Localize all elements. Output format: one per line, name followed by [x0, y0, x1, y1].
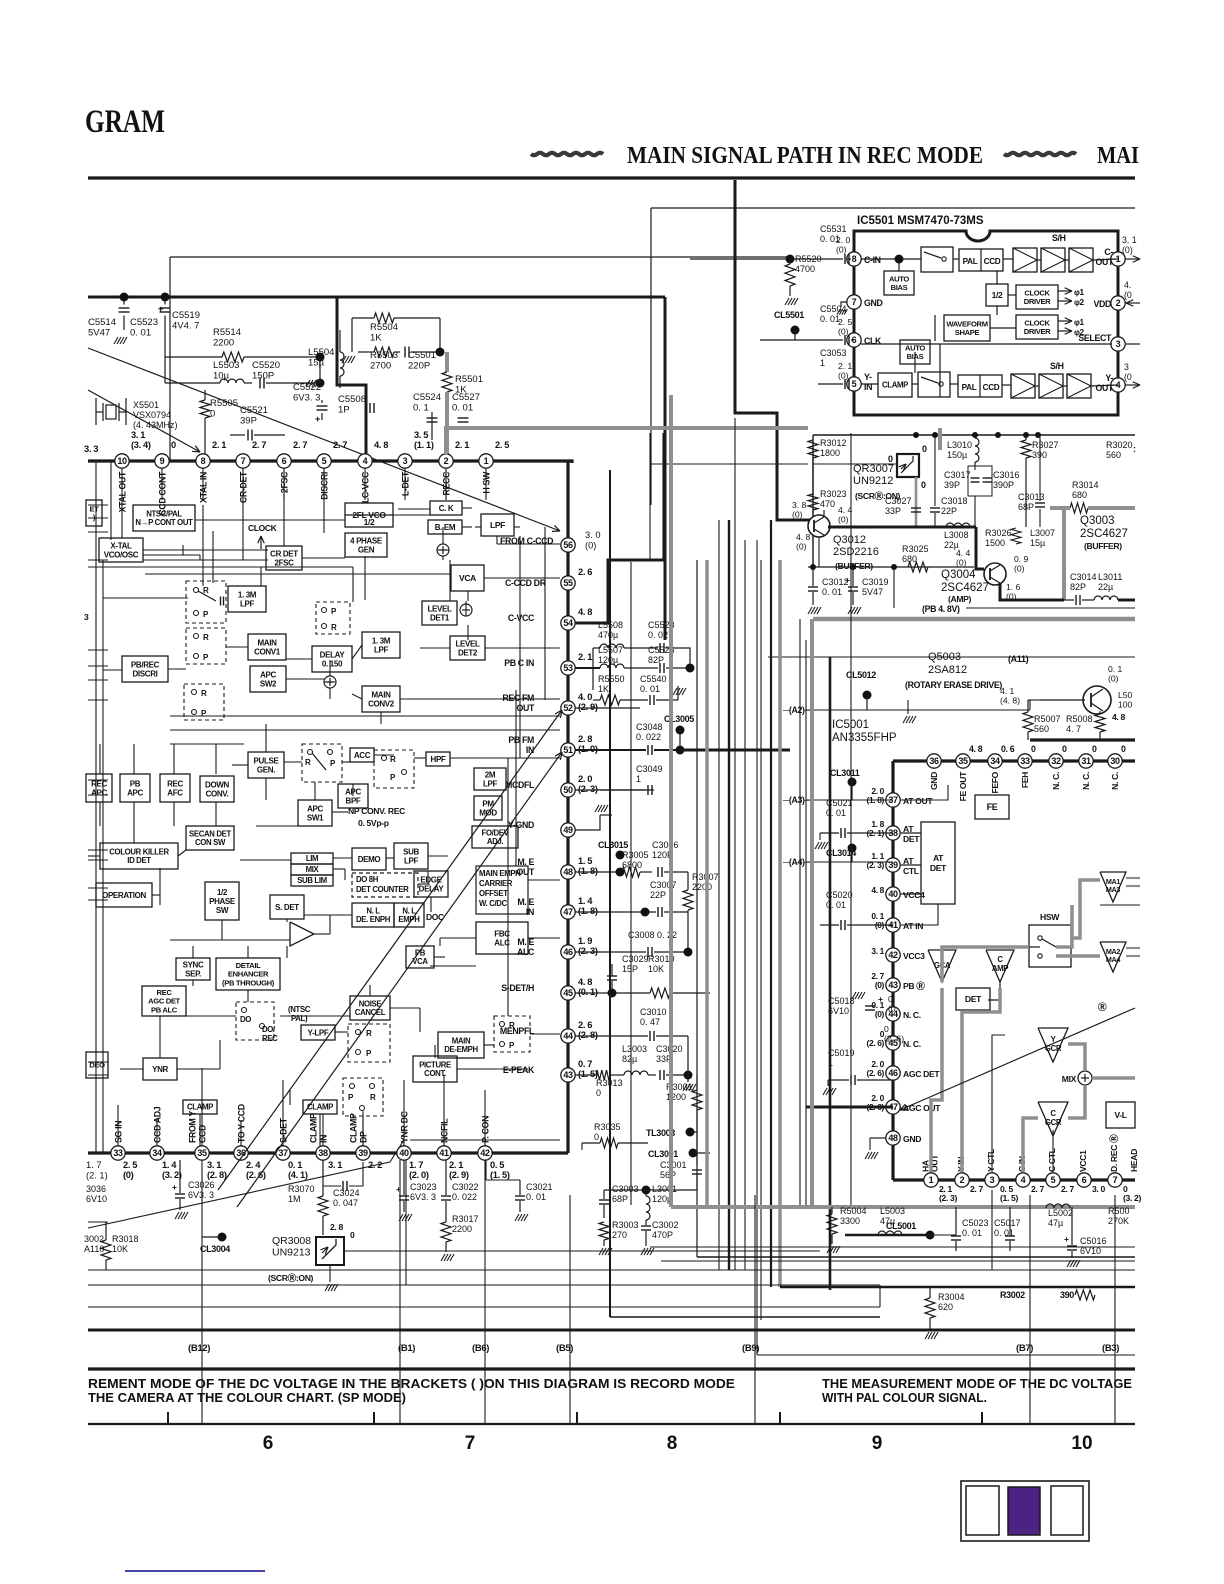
svg-text:C3022: C3022	[452, 1182, 479, 1192]
svg-text:ID DET: ID DET	[127, 856, 151, 865]
svg-text:OPERATION: OPERATION	[102, 891, 146, 900]
block 4 PHASE GEN	[345, 533, 387, 557]
junction CL3014	[848, 844, 857, 853]
svg-text:22µ: 22µ	[1098, 582, 1113, 592]
IC5001 pin 44 N. C.	[886, 1007, 900, 1021]
svg-text:(2. 9): (2. 9)	[578, 702, 598, 712]
svg-text:R3002: R3002	[1000, 1290, 1025, 1300]
IC5001 pin 31 N. C.	[1079, 754, 1093, 768]
svg-text:HEAD: HEAD	[1129, 1149, 1139, 1172]
svg-text:ACC: ACC	[354, 751, 371, 760]
switch dashed R/P c	[184, 684, 224, 720]
svg-text:GND: GND	[929, 772, 939, 790]
svg-text:5: 5	[322, 456, 327, 466]
IC5001 pin 42 VCC3	[886, 948, 900, 962]
svg-text:Q3012: Q3012	[833, 534, 866, 546]
IC5501 pin 7 GND	[847, 295, 861, 309]
svg-text:CONV2: CONV2	[368, 699, 395, 708]
svg-text:+: +	[315, 414, 320, 424]
IC5001 pin 34 FEFO	[988, 754, 1002, 768]
IC5001 pin 35 FE OUT	[956, 754, 970, 768]
svg-text:4. 8: 4. 8	[374, 440, 388, 450]
ground IC5001 top	[907, 700, 909, 714]
junction CL3001	[689, 1149, 698, 1158]
block NOISE CANCEL	[350, 996, 390, 1020]
svg-text:1800: 1800	[820, 448, 840, 458]
svg-text:L3007: L3007	[1030, 528, 1055, 538]
svg-text:8: 8	[667, 1433, 678, 1454]
svg-text:39: 39	[358, 1148, 368, 1158]
block 1/2 PHASE SW	[205, 882, 239, 920]
svg-text:DO: DO	[240, 1015, 251, 1024]
svg-text:A110: A110	[84, 1244, 104, 1254]
svg-text:C3049: C3049	[636, 764, 663, 774]
svg-text:X-TAL: X-TAL	[110, 541, 132, 550]
svg-text:L5504: L5504	[308, 347, 334, 358]
svg-text:34: 34	[152, 1148, 162, 1158]
svg-text:AN3355FHP: AN3355FHP	[832, 732, 897, 744]
svg-text:Ⓡ: Ⓡ	[1098, 1001, 1107, 1012]
ruler line	[88, 1423, 1135, 1425]
svg-text:C3001: C3001	[660, 1160, 687, 1170]
svg-text:R5550: R5550	[598, 674, 625, 684]
svg-text:R: R	[509, 1021, 515, 1030]
svg-text:CLOCK: CLOCK	[248, 523, 278, 533]
svg-text:39P: 39P	[240, 416, 257, 427]
svg-text:(B5): (B5)	[556, 1343, 573, 1354]
IC left main outline top edge	[88, 461, 572, 463]
wire delay plus	[324, 681, 335, 683]
svg-text:GEN.: GEN.	[257, 765, 275, 774]
svg-text:S/H: S/H	[1050, 361, 1064, 371]
svg-text:FROM Y: FROM Y	[188, 1111, 198, 1143]
svg-text:2. 1: 2. 1	[449, 1160, 463, 1170]
svg-text:CL3011: CL3011	[830, 768, 860, 778]
svg-text:2. 7: 2. 7	[970, 1184, 984, 1194]
IC left pin 39 CLAMP DP	[356, 1146, 370, 1160]
wires top pins into IC	[121, 468, 123, 500]
svg-text:GEN: GEN	[358, 545, 375, 554]
svg-text:C CTL: C CTL	[1047, 1148, 1057, 1172]
IC5501 pin 5 Y-IN	[847, 377, 861, 391]
svg-text:2M: 2M	[485, 770, 496, 779]
block APC SW1	[298, 800, 332, 826]
svg-text:Q3004: Q3004	[941, 569, 976, 581]
svg-text:CR DET: CR DET	[270, 549, 298, 558]
wire Q5003 bottom bus	[1030, 738, 1135, 741]
svg-text:DET1: DET1	[430, 613, 450, 622]
svg-text:C: C	[997, 955, 1003, 964]
header squiggle right	[1004, 153, 1076, 156]
svg-text:R3020: R3020	[1106, 440, 1133, 450]
IC5501 PAL CCD top	[959, 249, 1003, 271]
svg-text:VCA: VCA	[459, 573, 476, 583]
block 2M LPF	[474, 768, 506, 790]
wire bundle verticals	[609, 470, 611, 1317]
svg-text:QR3008: QR3008	[272, 1235, 311, 1247]
IC5501 CLOCK DRIVER b	[1016, 315, 1058, 339]
svg-text:4. 8: 4. 8	[578, 977, 592, 987]
svg-text:50: 50	[563, 785, 573, 795]
svg-text:PB: PB	[130, 779, 141, 788]
svg-text:LPF: LPF	[404, 856, 419, 865]
switch dashed P/R extra	[316, 602, 350, 634]
svg-text:(4. 43MHz): (4. 43MHz)	[133, 420, 178, 430]
wire lpf from ccd	[514, 526, 520, 528]
ground QR3008	[329, 1265, 331, 1282]
IC left pin 41 NCFIL	[437, 1146, 451, 1160]
svg-text:2. 5: 2. 5	[838, 317, 853, 327]
svg-text:VCC1: VCC1	[1078, 1150, 1088, 1172]
diagonal to pin 52	[218, 710, 562, 1190]
block Y-LPF	[301, 1025, 335, 1040]
wire thick elbow top	[735, 180, 812, 520]
svg-text:R5504: R5504	[370, 322, 398, 333]
svg-text:LEVEL: LEVEL	[455, 639, 479, 648]
svg-text:0. 150: 0. 150	[322, 659, 343, 668]
IC5501 AUTO BIAS b	[900, 340, 930, 364]
svg-text:1/2: 1/2	[364, 517, 375, 527]
wire grey IC5001 top border	[813, 617, 1135, 622]
svg-text:MAIN: MAIN	[452, 1036, 471, 1045]
svg-text:2. 8: 2. 8	[330, 1222, 344, 1232]
colour bar boxes	[961, 1481, 1089, 1541]
svg-text:51: 51	[563, 745, 573, 755]
junction CL3005	[676, 726, 685, 735]
svg-text:LPF: LPF	[374, 645, 389, 654]
svg-text:CONT.: CONT.	[424, 1069, 446, 1078]
svg-text:MAIN EMPH: MAIN EMPH	[479, 869, 521, 878]
svg-text:(1. 8): (1. 8)	[578, 906, 598, 916]
svg-text:0. 47: 0. 47	[640, 1017, 660, 1027]
wire AT pins to ATDET	[901, 832, 921, 834]
svg-text:2SC4627: 2SC4627	[941, 582, 989, 594]
svg-text:(B9): (B9)	[742, 1343, 759, 1354]
wire Y-IN	[818, 383, 843, 385]
block GCA triangle	[928, 950, 956, 982]
svg-text:40: 40	[888, 889, 898, 899]
svg-text:MIX: MIX	[1062, 1074, 1077, 1084]
IC5001 pin 41 AT IN	[886, 918, 900, 932]
svg-text:C3029: C3029	[622, 954, 649, 964]
svg-text:C5540: C5540	[640, 674, 667, 684]
svg-text:PB ALC: PB ALC	[151, 1005, 178, 1014]
svg-text:44: 44	[563, 1031, 573, 1041]
block X-TAL VCO/OSC	[99, 538, 143, 562]
wire bundle bottom elbows	[671, 1205, 1135, 1209]
svg-text:(ROTARY ERASE DRIVE): (ROTARY ERASE DRIVE)	[905, 680, 1002, 690]
svg-text:220P: 220P	[408, 361, 430, 372]
IC5501 CLOCK DRIVER a	[1016, 285, 1058, 309]
inductor L3006	[946, 523, 954, 527]
IC5501 WAVEFORM SHAPE	[944, 315, 990, 341]
svg-text:470: 470	[820, 499, 835, 509]
svg-text:1: 1	[636, 774, 641, 784]
IC left main outline bottom edge	[88, 1151, 568, 1154]
IC5501 CLAMP	[878, 373, 912, 397]
svg-text:DEMO: DEMO	[358, 855, 381, 864]
wire noise cancel	[335, 1031, 348, 1033]
wire C5508 thick path	[337, 297, 366, 455]
svg-text:R5520: R5520	[795, 254, 822, 264]
IC left pin 6 2FSC	[277, 454, 291, 468]
IC left pin 3 L-DET	[398, 454, 412, 468]
svg-text:10K: 10K	[648, 964, 664, 974]
svg-text:LPF: LPF	[240, 599, 255, 608]
block SECAN DET CON SW	[186, 826, 234, 850]
IC5001 pin 1 HA OUT	[924, 1173, 938, 1187]
svg-text:4. 8: 4. 8	[969, 744, 983, 754]
svg-text:56: 56	[563, 540, 573, 550]
svg-text:DET: DET	[965, 994, 982, 1004]
wire vca cccd	[484, 577, 560, 579]
svg-text:36: 36	[929, 756, 939, 766]
svg-text:REC FM: REC FM	[502, 693, 534, 703]
svg-text:CLAMP: CLAMP	[882, 381, 908, 390]
diagonal AGC OUT	[900, 1008, 1135, 1110]
IC left pin 42 P. CON	[478, 1146, 492, 1160]
svg-text:2FSC: 2FSC	[274, 558, 294, 567]
svg-text:CLAMP: CLAMP	[187, 1103, 213, 1112]
block LEVEL DET2	[450, 636, 485, 660]
IC left pin 46 M. E ALC	[561, 945, 575, 959]
svg-text:R5514: R5514	[213, 327, 241, 338]
svg-text:5V47: 5V47	[862, 587, 883, 597]
svg-text:10: 10	[1071, 1433, 1092, 1454]
wire emitter bus	[808, 566, 974, 568]
svg-text:C3048: C3048	[636, 722, 663, 732]
junction TL3003	[686, 1128, 695, 1137]
svg-text:6: 6	[263, 1433, 274, 1454]
svg-text:0: 0	[1031, 744, 1036, 754]
svg-text:WITH PAL COLOUR SIGNAL.: WITH PAL COLOUR SIGNAL.	[822, 1391, 987, 1405]
wire thin under	[768, 656, 1135, 658]
svg-text:(0): (0)	[796, 542, 807, 552]
svg-text:C3027: C3027	[885, 496, 912, 506]
svg-text:APC: APC	[307, 804, 323, 813]
svg-text::: :	[1133, 444, 1136, 454]
wire to Q3004 base thick	[976, 527, 984, 569]
wire pin53	[575, 667, 600, 669]
svg-text:L3011: L3011	[1098, 572, 1122, 582]
svg-text:SEP.: SEP.	[185, 969, 201, 978]
svg-text:33: 33	[113, 1148, 123, 1158]
svg-text:0. 01: 0. 01	[640, 684, 660, 694]
svg-text:1P: 1P	[338, 405, 350, 416]
svg-text:9: 9	[872, 1433, 883, 1454]
block NL EMPH	[394, 903, 424, 927]
switch dashed DO	[236, 1002, 274, 1040]
block PULSE GEN	[248, 752, 284, 778]
block 1.3M LPF second	[362, 632, 400, 658]
block MAIN CONV1	[248, 634, 286, 660]
IC5001 pin 48 GND	[886, 1131, 900, 1145]
wire pin52 stub	[575, 707, 640, 709]
svg-text:2. 5: 2. 5	[123, 1160, 137, 1170]
svg-text:0: 0	[1121, 744, 1126, 754]
svg-text:φ2: φ2	[1074, 298, 1085, 307]
IC5001 pin 39 AT CTL	[886, 858, 900, 872]
svg-text:2. 7: 2. 7	[333, 440, 347, 450]
svg-text:NTSC/PAL: NTSC/PAL	[146, 509, 182, 518]
svg-text:0: 0	[884, 1024, 889, 1034]
svg-text:R: R	[305, 758, 311, 767]
IC left pin 43 E-PEAK	[561, 1068, 575, 1082]
svg-text:DOWN: DOWN	[205, 780, 230, 789]
wire extra interior verticals	[519, 536, 521, 758]
svg-text:7: 7	[852, 297, 857, 307]
svg-text:R: R	[370, 1093, 376, 1102]
wire row y567	[88, 566, 353, 568]
svg-text:1: 1	[484, 456, 489, 466]
svg-text:0. 1: 0. 1	[1108, 664, 1123, 674]
IC5501 switch box top	[921, 247, 953, 272]
wire CLK	[760, 339, 843, 341]
block AT DET	[921, 822, 955, 904]
IC left pin 50 MCDFL	[561, 783, 575, 797]
block MA2 MA4 triangle	[1100, 942, 1126, 972]
svg-text:0. 01: 0. 01	[452, 403, 473, 414]
svg-text:0. 1: 0. 1	[288, 1160, 302, 1170]
svg-text:DE. ENPH: DE. ENPH	[356, 915, 391, 924]
summing node 2	[324, 676, 336, 688]
svg-text:4. 8: 4. 8	[578, 607, 592, 617]
ground C3020	[687, 1075, 689, 1082]
svg-text:SHAPE: SHAPE	[955, 328, 980, 337]
block PB APC	[120, 774, 150, 802]
svg-text:+: +	[878, 994, 883, 1004]
svg-text:1. 7: 1. 7	[409, 1160, 423, 1170]
svg-text:2. 7: 2. 7	[252, 440, 266, 450]
svg-text:2. 7: 2. 7	[293, 440, 307, 450]
svg-text:(2. 8): (2. 8)	[578, 1030, 598, 1040]
switch dashed R/P a	[186, 581, 226, 623]
svg-text:L3003: L3003	[622, 1044, 647, 1054]
svg-text:C-CCD DR: C-CCD DR	[505, 578, 547, 588]
svg-text:37: 37	[278, 1148, 288, 1158]
svg-text:C3026: C3026	[188, 1180, 215, 1190]
svg-text:0: 0	[1062, 744, 1067, 754]
svg-text:+: +	[845, 575, 850, 585]
wire right verticals lower	[879, 1285, 881, 1307]
svg-text:C-IN: C-IN	[864, 255, 881, 265]
block 2FL VCO 1/2	[345, 503, 393, 527]
svg-text:3. 1: 3. 1	[131, 430, 145, 440]
wire Q3012 collector bus thick	[828, 526, 976, 529]
svg-text:82P: 82P	[1070, 582, 1086, 592]
svg-text:46: 46	[563, 947, 573, 957]
svg-text:3002: 3002	[84, 1234, 104, 1244]
svg-text:φ1: φ1	[1074, 318, 1085, 327]
svg-text:3. 1: 3. 1	[207, 1160, 221, 1170]
svg-text:AFC: AFC	[167, 788, 183, 797]
svg-text:270: 270	[612, 1230, 627, 1240]
svg-text:6V10: 6V10	[1080, 1246, 1101, 1256]
svg-text:1. 4: 1. 4	[162, 1160, 177, 1170]
svg-text:C3018: C3018	[941, 496, 968, 506]
svg-text:DRIVER: DRIVER	[1024, 297, 1051, 306]
junction CL5501	[791, 326, 800, 335]
svg-text:DRIVER: DRIVER	[1024, 327, 1051, 336]
svg-text:43: 43	[888, 980, 898, 990]
transistor Q3004	[984, 563, 1006, 585]
svg-text:Y-LPF: Y-LPF	[308, 1028, 329, 1037]
svg-text:8: 8	[201, 456, 206, 466]
svg-text:2. 1: 2. 1	[838, 361, 853, 371]
svg-text:3. 5: 3. 5	[414, 430, 428, 440]
svg-text:R3005: R3005	[622, 850, 649, 860]
IC5001 pin 36 GND	[927, 754, 941, 768]
wire pin37 to FE	[901, 785, 948, 800]
svg-text:(0): (0)	[836, 245, 847, 255]
block VCA	[451, 565, 484, 591]
svg-text:GND: GND	[864, 298, 883, 308]
svg-text:CON SW: CON SW	[195, 838, 226, 847]
svg-text:6: 6	[1082, 1175, 1087, 1185]
svg-text:AGC DET: AGC DET	[903, 1069, 940, 1079]
svg-text:(1. 5): (1. 5)	[490, 1170, 510, 1180]
svg-text:5: 5	[1051, 1175, 1056, 1185]
block SYNC SEP	[176, 958, 210, 980]
svg-text:L3010: L3010	[947, 440, 972, 450]
wires left edge stubs	[88, 504, 108, 506]
amplifier triangle	[290, 922, 314, 946]
wire pulse gen links	[265, 724, 267, 752]
switch dashed R/P b	[186, 628, 226, 664]
junction CL3011	[848, 778, 857, 787]
svg-text:PB/REC: PB/REC	[131, 660, 160, 669]
svg-text:31: 31	[1081, 756, 1091, 766]
svg-text:CLAMP: CLAMP	[309, 1113, 319, 1143]
svg-text:34: 34	[990, 756, 1000, 766]
svg-text:COLOUR KILLER: COLOUR KILLER	[109, 847, 169, 856]
svg-text:Y-: Y-	[864, 372, 872, 382]
block APC BPF	[338, 784, 368, 808]
svg-text:270K: 270K	[1108, 1216, 1129, 1226]
svg-text:0. 9: 0. 9	[1014, 554, 1029, 564]
svg-text:AMP: AMP	[992, 964, 1008, 973]
svg-text:C-: C-	[1104, 247, 1113, 257]
wire select line	[940, 343, 1112, 345]
svg-text:470µ: 470µ	[598, 630, 618, 640]
svg-text:SECAN DET: SECAN DET	[189, 829, 231, 838]
svg-text:8: 8	[852, 254, 857, 264]
svg-text:(0): (0)	[1122, 245, 1133, 255]
svg-text:Y-: Y-	[1105, 373, 1113, 383]
block FBC ALC	[476, 922, 528, 954]
svg-text:0: 0	[1092, 744, 1097, 754]
svg-text:4: 4	[363, 456, 368, 466]
svg-text:X5501: X5501	[133, 400, 159, 410]
IC5001 pin 2 Y IN	[955, 1173, 969, 1187]
svg-text:R: R	[331, 623, 337, 632]
summing node	[437, 544, 449, 556]
IC5001 outline bottom edge	[893, 1178, 1135, 1181]
svg-text:1M: 1M	[288, 1194, 301, 1204]
svg-text:3: 3	[990, 1175, 995, 1185]
svg-text:SW: SW	[216, 906, 229, 915]
svg-text:C3006: C3006	[652, 840, 679, 850]
IC left pin 8 XTAL IN	[196, 454, 210, 468]
svg-text:C5520: C5520	[252, 360, 280, 371]
svg-text:(2. 8): (2. 8)	[207, 1170, 227, 1180]
svg-text:1. 5: 1. 5	[578, 856, 592, 866]
svg-text:CL5001: CL5001	[886, 1221, 916, 1231]
svg-text:R5008: R5008	[1066, 714, 1093, 724]
block V-LC	[1106, 1102, 1135, 1128]
switch dashed R/P e	[374, 750, 414, 788]
wires HSW grey paths	[942, 947, 1029, 982]
